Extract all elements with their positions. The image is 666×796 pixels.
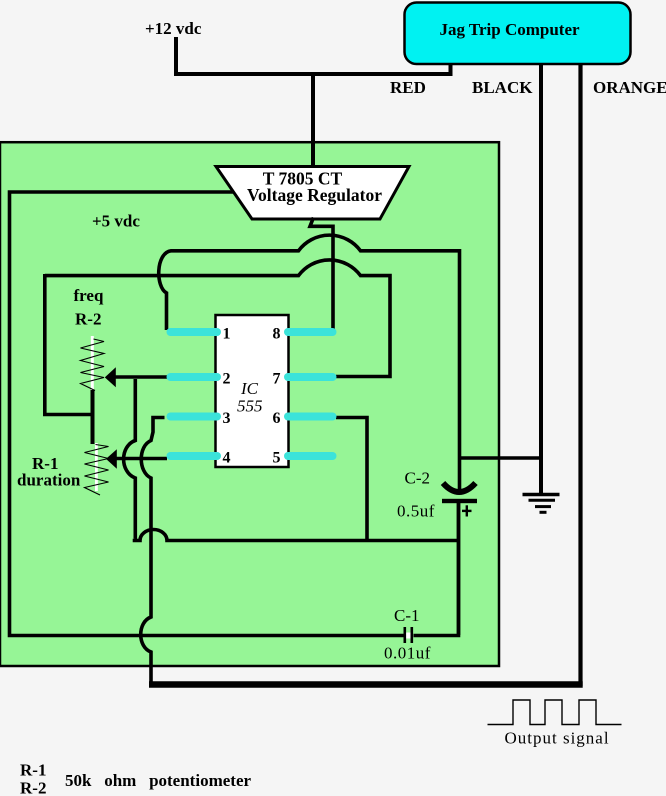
wire ground horizontal from C-2 top node to BLACK lead [460,456,542,460]
wire regulator input from +12 rail [311,74,315,168]
capacitor C-2 straight plate [442,499,477,503]
svg-text:6: 6 [273,410,281,427]
svg-text:C-1: C-1 [394,606,420,625]
wire R-2 bottom to R-1 top spine [91,390,95,445]
capacitor C-1 white gap [405,633,413,639]
svg-text:1: 1 [223,326,231,343]
pin bar 6 [288,413,333,421]
resistor R-2 white stripe [91,336,94,390]
svg-text:Jag Trip Computer: Jag Trip Computer [439,20,580,39]
wire V1: pins2/6 node from wiper wire down, hop over R-1 wiper wire, to 540 rail [124,379,136,539]
svg-text:BLACK: BLACK [472,78,533,97]
capacitor C-2 curved plate [443,483,476,492]
R-1 wiper arrow [106,449,117,469]
svg-text:ORANGE: ORANGE [593,78,666,97]
svg-text:+12 vdc: +12 vdc [145,19,202,38]
capacitor C-1 plates [404,627,407,643]
svg-text:C-2: C-2 [405,469,431,488]
wire pin4 to R-1 wiper [113,457,167,461]
svg-text:0.01uf: 0.01uf [384,644,431,663]
svg-text:RED: RED [390,78,426,97]
wire line1: pin1 up, hop over line2, right with hop over wire B, down to C-2 top node [159,235,460,490]
wire pin6 riser [336,418,367,543]
wire +5 vdc: regulator left output, left rail down, bottom rail to C-1 [10,192,404,636]
wire ORANGE lead down to output [578,63,582,686]
resistor R-1 white stripe [95,443,98,491]
capacitor C-2 plus sign [462,510,472,512]
svg-text:Voltage Regulator: Voltage Regulator [247,185,382,205]
svg-text:5: 5 [273,450,281,467]
wire BLACK lead down to ground [539,63,543,494]
wire thick output to ORANGE lead [149,681,583,688]
wire C-2 bottom vertical through 540 rail to C-1 corner [457,503,461,635]
pin bar 5 [288,452,333,460]
wire pin2 to R-2 wiper [112,375,167,379]
Jag Trip Computer box [405,3,631,65]
output square wave icon [488,700,622,725]
svg-text:R-2: R-2 [75,310,101,329]
green circuit board panel [0,142,499,666]
R-2 wiper arrow [105,367,116,387]
svg-text:0.5uf: 0.5uf [397,502,435,521]
resistor R-2 zigzag [81,339,105,391]
wire V2: pin3 stub down, hops over wiper wire, 540 rail, +5 rail, to output wire [141,418,165,683]
wire line2: R-2 bottom left leg up, right with hop over wire B, down to pin7 [43,260,390,415]
pin bar 7 [288,373,333,381]
voltage regulator U1 T7805CT trapezoid [216,167,409,220]
svg-text:7: 7 [273,371,281,388]
ground symbol [523,493,560,496]
svg-text:R-2: R-2 [20,779,46,796]
pin bar 4 [171,452,218,460]
wire B regulator output down to pin 8 [310,218,333,331]
svg-text:3: 3 [223,410,231,427]
svg-text:+5 vdc: +5 vdc [92,212,140,231]
svg-text:R-1: R-1 [20,761,46,780]
IC U1 555 body [216,315,289,467]
wire bottom rail right of C-1 up to C-2 minus chain [414,502,459,636]
svg-text:Output signal: Output signal [505,729,610,748]
svg-text:duration: duration [17,471,81,490]
pin bar 8 [288,328,333,336]
svg-text:4: 4 [223,450,231,467]
svg-text:2: 2 [223,371,231,388]
pin bar 3 [171,413,218,421]
wire +12 vdc feed (down, right, up to computer RED lead) [176,37,451,74]
svg-text:555: 555 [237,397,263,416]
pin bar 1 [171,328,218,336]
svg-text:50k ohm potentiometer: 50k ohm potentiometer [65,771,251,790]
wire 540 rail: V1 corner right with hop over V2, tee pin6 riser, to C-2 bottom chain [133,530,459,541]
pin bar 2 [171,373,218,381]
svg-text:IC: IC [240,379,259,398]
resistor R-1 zigzag [85,445,109,496]
svg-text:freq: freq [74,286,104,305]
svg-text:8: 8 [273,326,281,343]
